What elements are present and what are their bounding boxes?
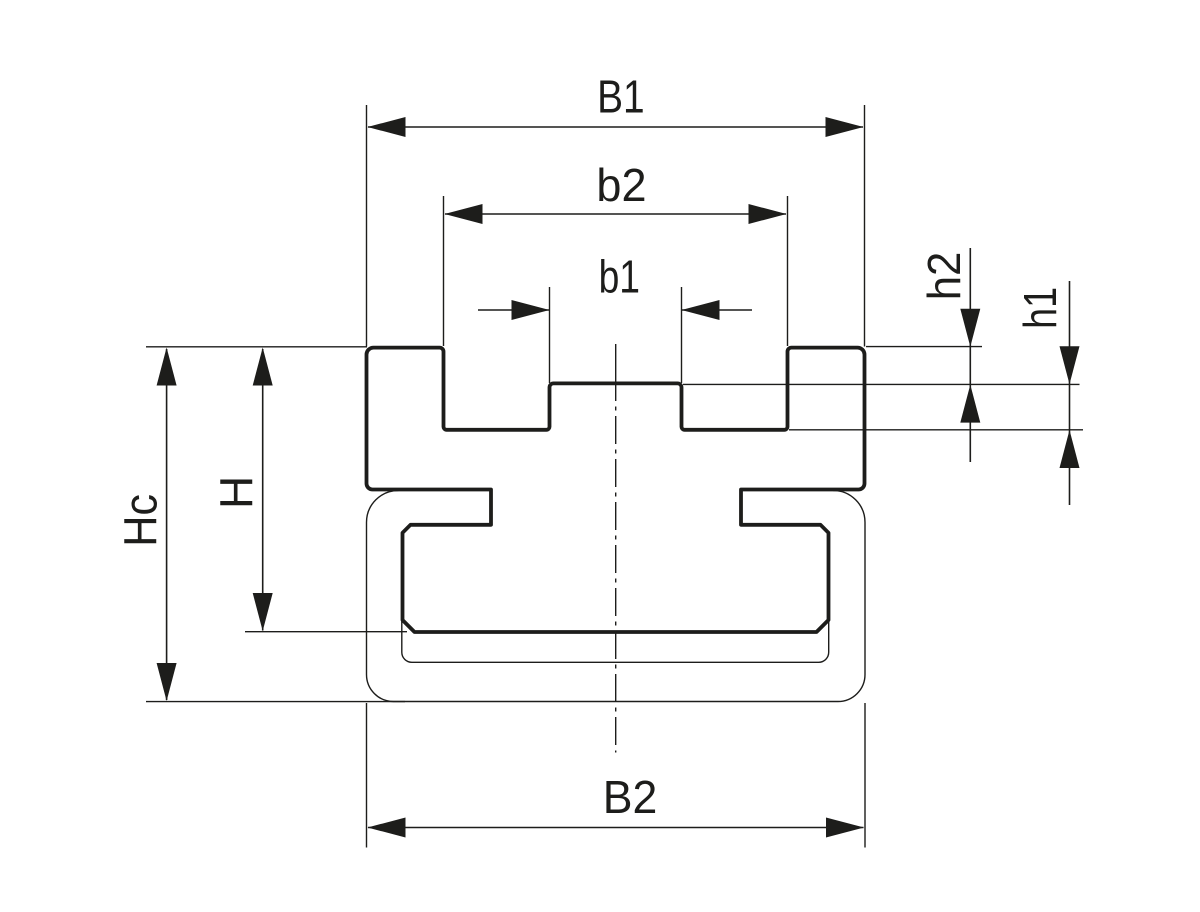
dimension B2 [367,703,866,848]
h2 dimension line [969,248,971,462]
svg-text:h2: h2 [918,252,970,301]
h1 dimension line [1069,281,1071,505]
b2 dimension line [445,213,786,215]
H dimension line [262,349,264,631]
b1 right arrowhead (points left) [682,300,720,320]
dimension B1 [367,71,865,346]
dimension b2 [444,160,788,346]
B1 left extension line [366,105,368,347]
B2 right arrowhead [826,818,864,838]
H bottom extension line [245,631,407,633]
vertical center line (dash-dot) [615,344,617,401]
Hc top arrowhead [157,348,177,386]
h2 top extension line (profile top) [866,346,982,348]
B2 right extension line [864,703,866,848]
svg-text:H: H [210,476,262,509]
b1 right leader line [682,309,752,311]
h1 lower arrowhead (points up) [1060,430,1080,468]
b1 left leader line [478,309,549,311]
b1 left extension line [549,287,551,383]
svg-text:h1: h1 [1015,287,1066,329]
B2 dimension line [368,827,864,829]
b2 left extension line [443,196,445,346]
H bottom arrowhead [253,593,273,631]
Hc dimension line [166,349,168,700]
svg-text:Hc: Hc [116,494,166,547]
b1 left arrowhead (points right) [512,300,550,320]
dimension H [210,348,407,632]
b1 right extension line [681,287,683,383]
h2 upper arrowhead (points down) [960,309,980,347]
svg-text:b2: b2 [596,160,646,212]
svg-text:B2: B2 [603,771,658,823]
svg-text:b1: b1 [599,251,640,303]
B2 left arrowhead [368,818,406,838]
h1 upper arrowhead (points down) [1060,346,1080,384]
Hc bottom extension line [146,701,405,703]
B1 right extension line [864,105,866,347]
dimension h1 [789,281,1083,505]
B1 dimension line [368,126,863,128]
chain outer link plate (thin rounded outline) [367,490,866,701]
dimension h2 [683,248,1080,462]
b2 left arrowhead [445,204,483,224]
chain inner link plate (thin lines inside channel) [402,534,829,662]
B1 left arrowhead [368,117,406,137]
groove-bottom extension line [789,429,1083,431]
b2 right extension line [787,196,789,346]
B1 right arrowhead [826,117,864,137]
Hc top extension line [146,346,367,348]
guide profile cross-section outline (thick) [367,348,865,632]
dimension b1 [478,251,752,383]
svg-text:B1: B1 [597,71,645,123]
h2 lower arrowhead (points up) [960,385,980,423]
plateau extension line (shared by h2/h1) [683,383,1080,385]
B2 left extension line [366,703,368,848]
dimension Hc [116,347,405,702]
b2 right arrowhead [749,204,787,224]
Hc bottom arrowhead [157,663,177,701]
H top arrowhead [253,348,273,386]
